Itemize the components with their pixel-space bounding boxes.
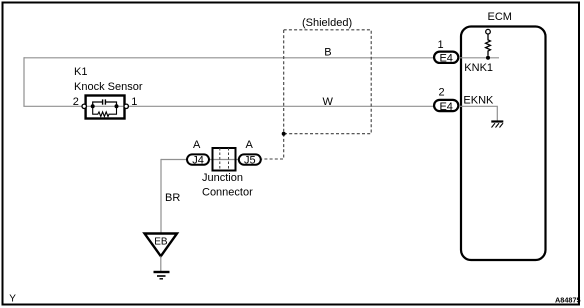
junction connector body xyxy=(187,139,261,171)
ECM box xyxy=(461,27,546,261)
connector J4 oval xyxy=(187,154,209,164)
svg-text:E4: E4 xyxy=(439,101,452,113)
wire KNK1 inside ECM (grey) xyxy=(459,57,499,59)
svg-text:Y: Y xyxy=(9,294,16,305)
svg-text:B: B xyxy=(324,46,331,58)
pin 2 terminal circle xyxy=(82,104,86,108)
resistor pull-up inside ECM xyxy=(486,29,491,55)
pin 1 terminal circle xyxy=(124,104,128,108)
junction connector box xyxy=(213,148,236,171)
knock sensor K1 body xyxy=(82,96,128,119)
resistor branch inside sensor xyxy=(93,106,117,116)
svg-text:E4: E4 xyxy=(439,53,452,65)
wire through junction connector (grey) xyxy=(187,159,263,161)
svg-text:J5: J5 xyxy=(244,155,256,167)
wire B (left loop top, grey) xyxy=(24,57,434,59)
svg-text:KNK1: KNK1 xyxy=(464,62,493,74)
svg-text:ECM: ECM xyxy=(488,11,512,23)
svg-text:2: 2 xyxy=(73,96,79,108)
svg-text:Knock Sensor: Knock Sensor xyxy=(74,81,143,93)
svg-text:Connector: Connector xyxy=(202,187,253,199)
connector J5 oval xyxy=(239,154,261,164)
svg-text:BR: BR xyxy=(165,192,180,204)
ground chassis symbol inside ECM xyxy=(491,122,503,128)
svg-text:J4: J4 xyxy=(192,155,204,167)
wire W from knock sensor pin 1 to ECM E4 xyxy=(126,105,433,107)
wire left vertical of loop xyxy=(23,57,25,106)
svg-text:Junction: Junction xyxy=(202,172,243,184)
svg-text:EKNK: EKNK xyxy=(463,95,494,107)
node shield junction dot xyxy=(282,132,286,136)
wire EKNK inside ECM (grey) xyxy=(459,106,497,120)
svg-text:K1: K1 xyxy=(74,66,87,78)
node dots inside sensor xyxy=(91,104,95,108)
node KNK1 junction dot xyxy=(486,56,490,60)
shield dashed box xyxy=(284,30,372,134)
wire bottom loop to knock sensor pin 2 xyxy=(23,105,84,107)
svg-text:1: 1 xyxy=(438,39,444,51)
capacitor branch inside sensor xyxy=(93,102,102,106)
connector E4 pin 2 oval xyxy=(434,100,458,113)
svg-text:W: W xyxy=(323,96,334,108)
svg-text:A84875: A84875 xyxy=(555,296,581,305)
svg-text:EB: EB xyxy=(154,237,168,248)
wire EB triangle to earth ground (grey) xyxy=(160,256,162,271)
svg-text:A: A xyxy=(246,139,254,151)
ground earth symbol below EB xyxy=(154,272,170,279)
wire from junction connector J4 to EB ground (grey) xyxy=(161,159,187,161)
wire shield drain (dashed) to junction connector J5 xyxy=(262,134,284,159)
connector E4 pin 1 oval xyxy=(434,52,458,65)
svg-text:A: A xyxy=(193,139,201,151)
svg-text:(Shielded): (Shielded) xyxy=(302,17,352,29)
ground EB triangle xyxy=(145,234,178,257)
svg-text:2: 2 xyxy=(439,87,445,99)
svg-text:1: 1 xyxy=(131,96,137,108)
